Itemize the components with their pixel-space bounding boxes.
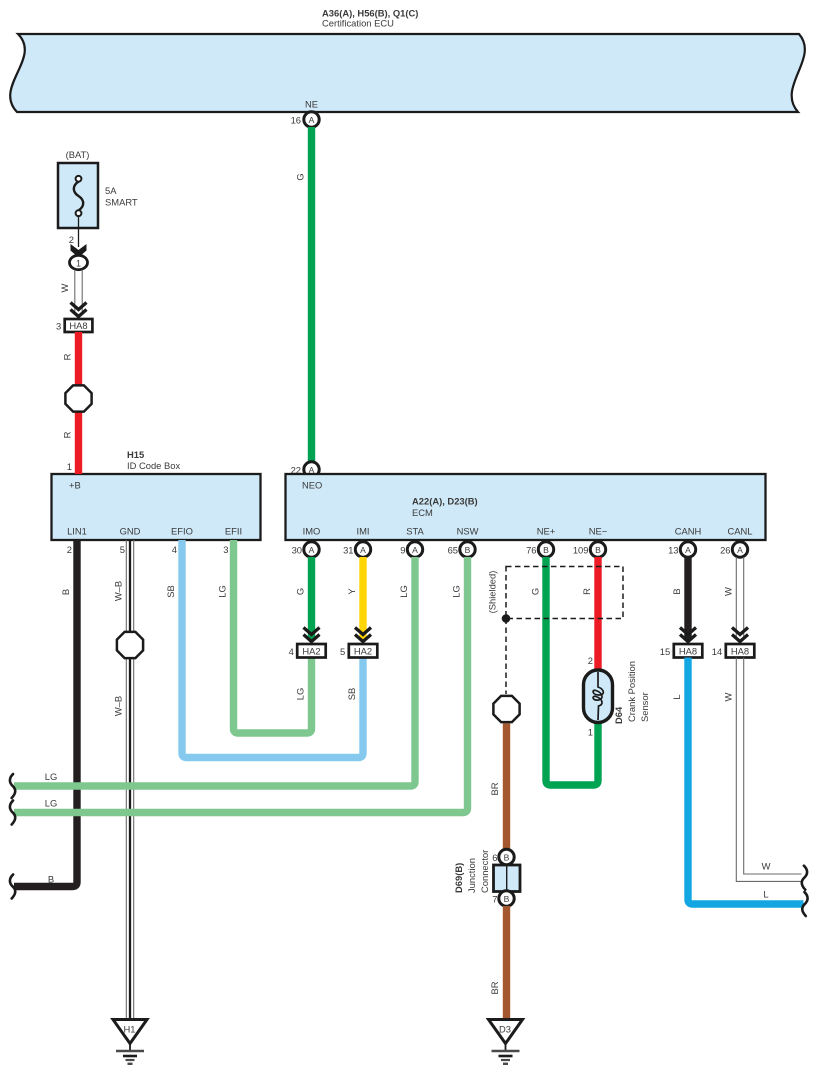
svg-text:(Shielded): (Shielded) bbox=[487, 571, 498, 614]
svg-text:9: 9 bbox=[400, 544, 405, 555]
svg-text:5: 5 bbox=[120, 544, 125, 555]
svg-text:HA8: HA8 bbox=[69, 320, 87, 331]
svg-text:W–B: W–B bbox=[113, 581, 124, 601]
svg-text:LG: LG bbox=[451, 585, 462, 598]
wire G IMO bbox=[308, 557, 315, 641]
wire B CANH bbox=[684, 557, 691, 641]
wire L to right bbox=[688, 658, 804, 905]
junction connector D69(B) bbox=[499, 849, 514, 864]
svg-text:A: A bbox=[737, 545, 743, 555]
connector 15 HA8 bbox=[674, 644, 703, 658]
svg-text:2: 2 bbox=[588, 655, 593, 666]
svg-text:R: R bbox=[581, 588, 592, 595]
svg-text:LG: LG bbox=[45, 798, 58, 809]
svg-text:STA: STA bbox=[406, 526, 424, 537]
svg-text:IMO: IMO bbox=[303, 526, 321, 537]
svg-text:3: 3 bbox=[223, 544, 228, 555]
svg-text:5A: 5A bbox=[105, 185, 117, 196]
svg-text:109: 109 bbox=[573, 544, 589, 555]
svg-text:Y: Y bbox=[346, 588, 357, 595]
svg-text:A: A bbox=[309, 545, 315, 555]
svg-text:W: W bbox=[762, 861, 771, 872]
svg-text:ECM: ECM bbox=[412, 507, 433, 518]
svg-text:SB: SB bbox=[346, 688, 357, 701]
svg-text:+B: +B bbox=[69, 480, 81, 491]
shield junction dot bbox=[502, 614, 511, 623]
svg-text:6: 6 bbox=[492, 852, 497, 863]
wire BR to junction connector bbox=[503, 724, 510, 851]
svg-text:BR: BR bbox=[489, 981, 500, 994]
svg-text:A22(A), D23(B): A22(A), D23(B) bbox=[412, 496, 478, 507]
wire R to +B bbox=[75, 332, 82, 474]
svg-text:BR: BR bbox=[489, 782, 500, 795]
svg-text:A: A bbox=[360, 545, 366, 555]
svg-text:4: 4 bbox=[289, 646, 294, 657]
svg-text:Sensor: Sensor bbox=[639, 692, 650, 722]
wire G NE+ to sensor bbox=[546, 557, 598, 785]
wire LG EFII to 4 HA2 bbox=[234, 540, 312, 733]
svg-text:LIN1: LIN1 bbox=[67, 526, 87, 537]
svg-text:H1: H1 bbox=[124, 1024, 136, 1035]
svg-text:B: B bbox=[504, 894, 510, 904]
wire BR to ground D3 bbox=[503, 906, 510, 1020]
svg-text:A: A bbox=[412, 545, 418, 555]
svg-text:NE−: NE− bbox=[589, 526, 608, 537]
svg-text:H15: H15 bbox=[127, 449, 144, 460]
svg-text:B: B bbox=[60, 589, 71, 595]
svg-text:(BAT): (BAT) bbox=[66, 149, 90, 160]
svg-text:HA2: HA2 bbox=[354, 646, 372, 657]
wire Y IMI bbox=[359, 557, 366, 641]
svg-text:3: 3 bbox=[56, 321, 61, 332]
svg-text:EFIO: EFIO bbox=[171, 526, 193, 537]
svg-text:G: G bbox=[295, 588, 306, 595]
svg-text:LG: LG bbox=[398, 585, 409, 598]
svg-text:Crank Position: Crank Position bbox=[626, 661, 637, 722]
shield dashed drain wire bbox=[505, 619, 507, 695]
crank position sensor D64 bbox=[584, 670, 613, 723]
connector 4 HA2 bbox=[297, 644, 326, 658]
ground D3 bbox=[489, 1020, 523, 1044]
wire SB EFIO to 5 HA2 bbox=[182, 540, 363, 758]
svg-text:B: B bbox=[504, 852, 510, 862]
svg-text:HA8: HA8 bbox=[731, 646, 749, 657]
svg-text:Connector: Connector bbox=[479, 850, 490, 893]
svg-text:2: 2 bbox=[67, 544, 72, 555]
wire W fuse to HA8 bbox=[74, 270, 76, 314]
connector 14 HA8 bbox=[726, 644, 755, 658]
certification ECU band bbox=[10, 34, 805, 112]
svg-text:ID Code Box: ID Code Box bbox=[127, 460, 180, 471]
svg-text:Certification ECU: Certification ECU bbox=[322, 18, 394, 29]
svg-text:CANL: CANL bbox=[727, 526, 752, 537]
svg-text:76: 76 bbox=[526, 544, 536, 555]
svg-text:2: 2 bbox=[69, 234, 74, 245]
svg-text:NSW: NSW bbox=[457, 526, 479, 537]
svg-text:IMI: IMI bbox=[356, 526, 369, 537]
svg-text:B: B bbox=[671, 588, 682, 594]
svg-text:Junction: Junction bbox=[466, 858, 477, 893]
svg-text:13: 13 bbox=[668, 544, 678, 555]
wire W-B GND to ground H1 bbox=[125, 540, 127, 1020]
svg-text:R: R bbox=[62, 353, 73, 360]
wire B LIN1 bbox=[14, 540, 77, 887]
svg-text:D64: D64 bbox=[613, 706, 624, 724]
svg-text:26: 26 bbox=[720, 544, 730, 555]
ECM box A22(A), D23(B) bbox=[286, 474, 766, 540]
svg-text:30: 30 bbox=[292, 544, 302, 555]
svg-text:7: 7 bbox=[492, 893, 497, 904]
svg-text:65: 65 bbox=[448, 544, 458, 555]
svg-text:B: B bbox=[465, 545, 471, 555]
junction octagon on R wire bbox=[65, 385, 91, 411]
wire W CANL bbox=[735, 557, 737, 640]
svg-text:SMART: SMART bbox=[105, 197, 138, 208]
svg-text:NEO: NEO bbox=[302, 480, 322, 491]
svg-text:W–B: W–B bbox=[113, 696, 124, 716]
svg-text:15: 15 bbox=[660, 646, 670, 657]
svg-text:LG: LG bbox=[45, 771, 58, 782]
svg-text:B: B bbox=[595, 545, 601, 555]
svg-text:W: W bbox=[723, 692, 734, 701]
wire LG STA to left bbox=[14, 557, 415, 786]
svg-text:16: 16 bbox=[291, 114, 301, 125]
svg-text:14: 14 bbox=[712, 646, 722, 657]
svg-text:A: A bbox=[309, 115, 315, 125]
svg-text:L: L bbox=[763, 889, 768, 900]
wire LG NSW to left bbox=[14, 557, 468, 813]
svg-text:D69(B): D69(B) bbox=[453, 863, 464, 893]
svg-text:LG: LG bbox=[295, 688, 306, 701]
shield dashed box bbox=[506, 567, 623, 619]
svg-text:L: L bbox=[671, 694, 682, 699]
junction octagon on shield drain bbox=[493, 696, 519, 722]
wire W to right bbox=[744, 658, 802, 875]
svg-text:HA2: HA2 bbox=[302, 646, 320, 657]
svg-text:GND: GND bbox=[120, 526, 141, 537]
svg-text:B: B bbox=[543, 545, 549, 555]
connector 5 HA2 bbox=[349, 644, 378, 658]
connector circle 1 bbox=[70, 255, 88, 269]
svg-text:HA8: HA8 bbox=[679, 646, 697, 657]
junction octagon on W-B bbox=[117, 632, 143, 658]
ground H1 bbox=[113, 1020, 147, 1044]
H15 ID Code Box bbox=[52, 474, 261, 540]
svg-text:1: 1 bbox=[76, 258, 81, 268]
solid arrow bbox=[71, 244, 87, 258]
node NEO pin 22 bbox=[304, 462, 319, 477]
wire R NE- to sensor bbox=[594, 557, 601, 671]
svg-text:W: W bbox=[59, 283, 70, 292]
svg-text:31: 31 bbox=[343, 544, 353, 555]
svg-text:EFII: EFII bbox=[225, 526, 242, 537]
svg-text:A: A bbox=[685, 545, 691, 555]
svg-text:CANH: CANH bbox=[675, 526, 702, 537]
connector 3 HA8 bbox=[65, 319, 93, 332]
svg-text:1: 1 bbox=[67, 461, 72, 472]
svg-text:D3: D3 bbox=[499, 1024, 511, 1035]
svg-text:B: B bbox=[48, 874, 54, 885]
svg-text:G: G bbox=[295, 173, 306, 180]
svg-text:NE: NE bbox=[305, 99, 318, 110]
wire G from NE to NEO bbox=[308, 127, 315, 462]
svg-text:W: W bbox=[723, 587, 734, 596]
svg-text:1: 1 bbox=[588, 727, 593, 738]
svg-text:G: G bbox=[530, 588, 541, 595]
svg-text:R: R bbox=[62, 431, 73, 438]
svg-text:LG: LG bbox=[217, 585, 228, 598]
fuse pin 2 lead bbox=[78, 216, 80, 247]
svg-text:SB: SB bbox=[165, 585, 176, 598]
svg-text:4: 4 bbox=[172, 544, 177, 555]
svg-text:5: 5 bbox=[340, 646, 345, 657]
svg-text:NE+: NE+ bbox=[537, 526, 556, 537]
